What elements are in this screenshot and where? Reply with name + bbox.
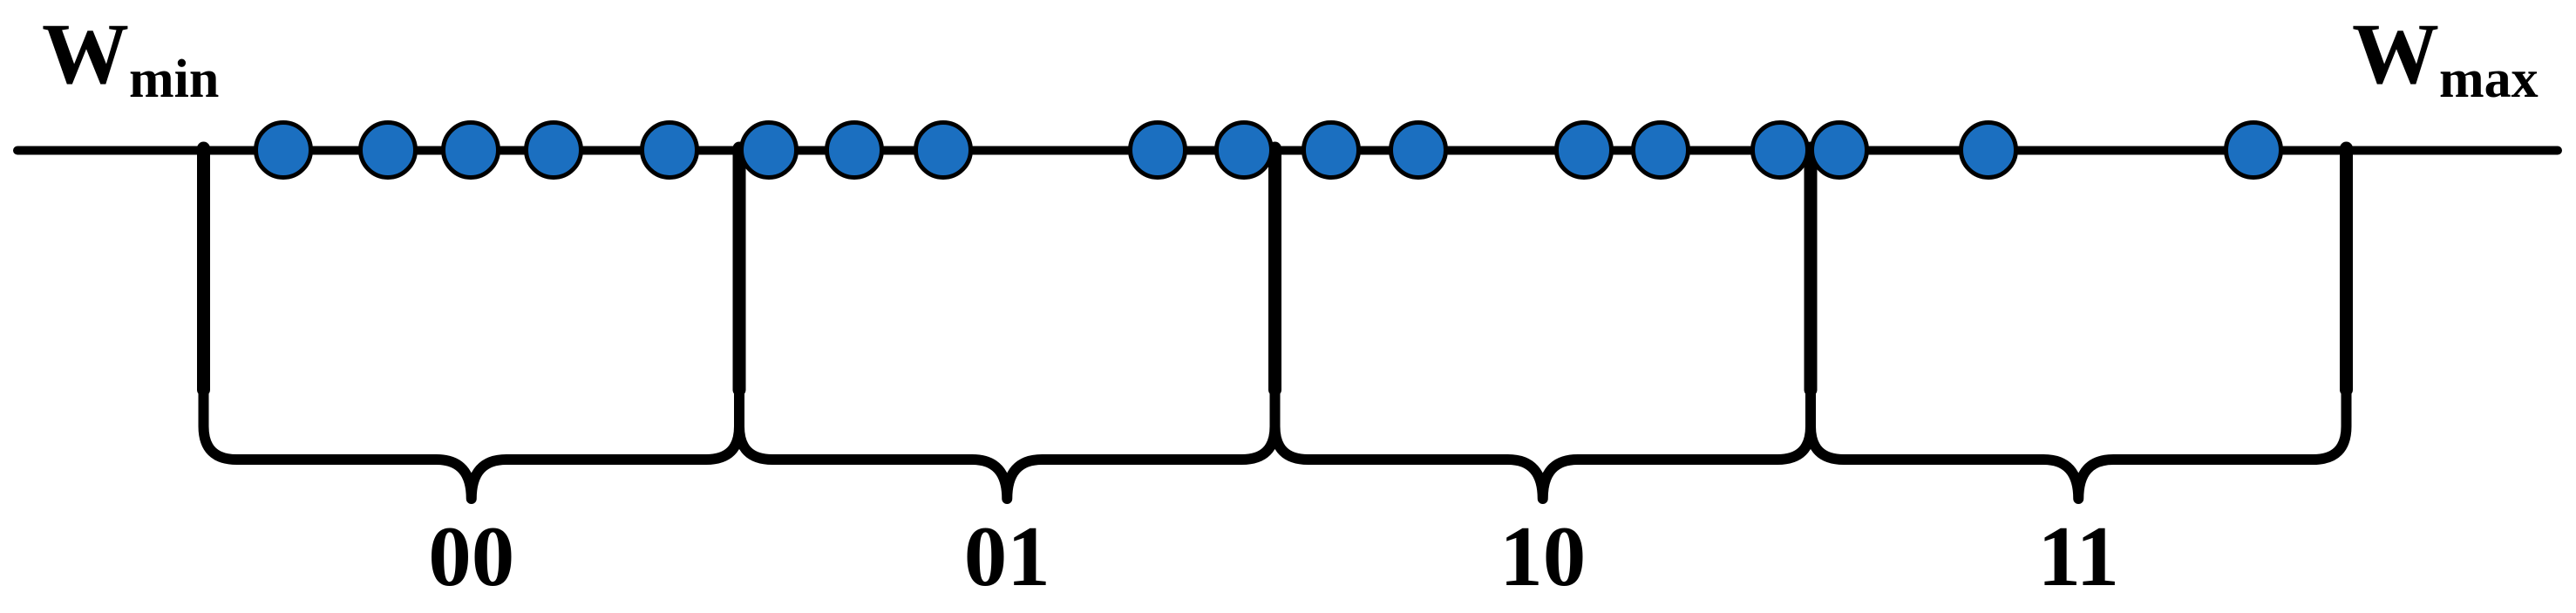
brace 10	[1275, 392, 1811, 499]
brace 00	[204, 392, 740, 499]
node tick 4	[1805, 148, 1818, 390]
weight dot 18	[2226, 123, 2281, 178]
weight dot 7	[827, 123, 882, 178]
weight dot 5	[642, 123, 697, 178]
svg-text:01: 01	[964, 509, 1050, 604]
weight dot 13	[1557, 123, 1612, 178]
node tick 3	[1268, 148, 1281, 390]
weight dot 11	[1304, 123, 1359, 178]
weight dot 8	[916, 123, 971, 178]
weight dot 15	[1753, 123, 1808, 178]
svg-text:00: 00	[428, 509, 514, 604]
node tick 2	[733, 148, 746, 390]
weight dot 14	[1634, 123, 1689, 178]
weight dot 17	[1961, 123, 2016, 178]
weight dot 12	[1391, 123, 1446, 178]
weight dot 6	[742, 123, 797, 178]
weight dot 2	[361, 123, 416, 178]
weight dot 16	[1812, 123, 1867, 178]
weight dot 10	[1217, 123, 1272, 178]
svg-text:10: 10	[1499, 509, 1586, 604]
weight dot 3	[444, 123, 499, 178]
svg-text:11: 11	[2037, 509, 2119, 604]
weight dots	[256, 123, 2281, 178]
weight dot 1	[256, 123, 311, 178]
wire: number line axis	[17, 146, 2558, 155]
node tick 5 (W_max boundary)	[2340, 148, 2353, 390]
brace 01	[739, 392, 1275, 499]
weight dot 9	[1131, 123, 1186, 178]
node tick 1 (W_min boundary)	[197, 148, 210, 390]
weight dot 4	[527, 123, 581, 178]
brace 11	[1811, 392, 2347, 499]
